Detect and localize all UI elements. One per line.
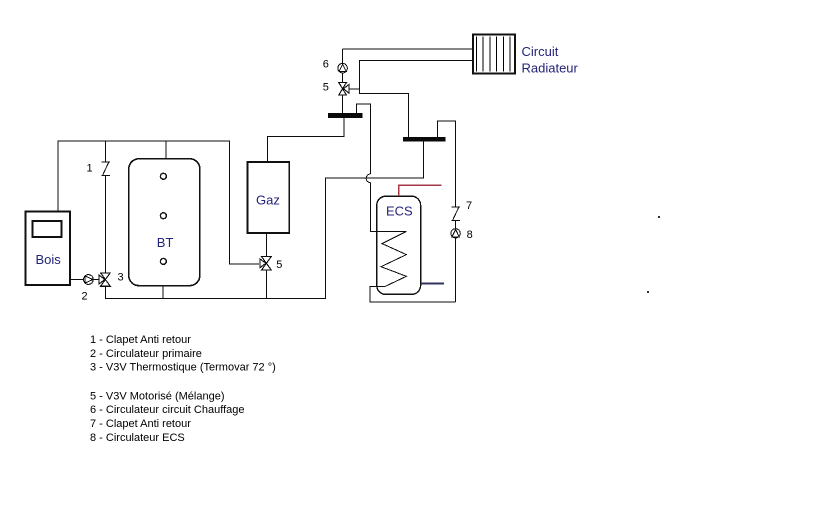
- svg-text:6 - Circulateur circuit Chauff: 6 - Circulateur circuit Chauffage: [90, 404, 244, 416]
- Gaz boiler box: [248, 162, 290, 233]
- BT buffer tank: [129, 159, 200, 286]
- wire clapet-1 to valve 3: [105, 175, 107, 273]
- wire manifold bar 1 to ECS coil feed: [357, 104, 371, 174]
- stray dot lower: [647, 291, 649, 293]
- wire pump P2 to valve 3: [93, 279, 99, 281]
- svg-text:2 - Circulateur primaire: 2 - Circulateur primaire: [90, 348, 202, 360]
- check valve 1 (clapet anti retour): [102, 162, 110, 175]
- svg-text:5: 5: [276, 259, 282, 271]
- svg-text:7: 7: [466, 200, 472, 212]
- pump P6 (circulateur chauffage): [338, 63, 348, 73]
- ECS tank: [377, 196, 421, 294]
- svg-text:5: 5: [323, 82, 329, 94]
- Bois boiler box: [26, 212, 71, 286]
- svg-text:5 - V3V Motorisé (Mélange): 5 - V3V Motorisé (Mélange): [90, 390, 225, 402]
- legend block 2: [90, 390, 244, 444]
- svg-text:Bois: Bois: [36, 252, 62, 267]
- wire BT return riser to manifold bar 2 (with hop at x=370): [325, 141, 423, 299]
- svg-text:8: 8: [467, 229, 473, 241]
- coil heat exchanger in ECS: [370, 232, 456, 302]
- wire BT top riser: [165, 141, 167, 159]
- wire valve 5a to return riser: [349, 88, 360, 90]
- manifold bar 1: [328, 113, 362, 118]
- stray dot upper: [658, 216, 660, 218]
- radiator symbol: [473, 35, 515, 74]
- svg-text:3: 3: [118, 272, 124, 284]
- svg-text:1: 1: [87, 162, 93, 174]
- wire Gaz top up to manifold bar 1: [267, 118, 344, 162]
- wire valve 5a down to manifold bar 1: [342, 95, 344, 114]
- red hot-water outlet line on ECS top: [399, 185, 442, 196]
- svg-text:Circuit: Circuit: [522, 44, 559, 59]
- svg-text:2: 2: [82, 290, 88, 302]
- svg-text:1 - Clapet Anti retour: 1 - Clapet Anti retour: [90, 334, 191, 346]
- wire Bois to pump P2: [71, 279, 84, 281]
- wire radiator flow line: [343, 48, 473, 50]
- wire pump P8 down to ECS bottom loop: [455, 238, 457, 302]
- svg-text:Radiateur: Radiateur: [522, 60, 579, 75]
- manifold bar 2: [403, 137, 445, 141]
- wire radiator return down to manifold bar 2: [360, 61, 473, 138]
- svg-text:BT: BT: [157, 235, 174, 250]
- svg-text:Gaz: Gaz: [256, 192, 280, 207]
- blue cold-water line on ECS right: [421, 282, 444, 284]
- wire top header line: [58, 140, 230, 142]
- wire manifold bar 2 up to ECS loop riser: [438, 121, 456, 207]
- wire Bois top riser: [57, 141, 59, 212]
- pump P2 (circulateur primaire): [84, 275, 94, 285]
- wire Gaz bottom to valve 5: [265, 233, 267, 257]
- check valve 7 (clapet anti retour): [452, 207, 460, 220]
- wire clapet-1 branch upper: [105, 141, 107, 163]
- sensor port middle: [160, 213, 166, 219]
- wire drop to pump P6: [342, 49, 344, 64]
- valve V3V 3 (thermostatic): [99, 273, 110, 286]
- svg-text:6: 6: [323, 58, 329, 70]
- wire pump P6 to valve 5a: [342, 73, 344, 83]
- hop where return crosses coil feed: [366, 174, 370, 183]
- wire bottom return line: [105, 298, 326, 300]
- sensor port bottom: [160, 258, 166, 264]
- wire BT bottom stub: [162, 286, 164, 299]
- pump P8 (circulateur ECS): [451, 229, 460, 238]
- wire valve 3 down to bottom return: [104, 286, 106, 298]
- wire clapet 7 to pump P8: [455, 220, 457, 228]
- wire right drop from header to valve 5 mixing: [230, 141, 259, 265]
- wire valve 5 down to bottom return: [265, 270, 267, 299]
- svg-text:7 - Clapet Anti retour: 7 - Clapet Anti retour: [90, 418, 191, 430]
- sensor port top: [160, 173, 166, 179]
- legend block 1: [90, 334, 276, 374]
- svg-text:ECS: ECS: [386, 203, 413, 218]
- valve V3V 5a (motorised mixing, top): [339, 83, 349, 95]
- valve V3V 5 (motorised mixing, below Gaz): [260, 257, 271, 270]
- svg-text:3 - V3V Thermostique (Termovar: 3 - V3V Thermostique (Termovar 72 °): [90, 362, 276, 374]
- svg-text:8 - Circulateur ECS: 8 - Circulateur ECS: [90, 432, 185, 444]
